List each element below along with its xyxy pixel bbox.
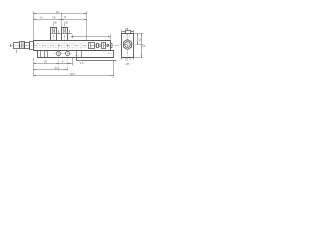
- top dim extension lines: [33, 11, 35, 40]
- svg-text:M5: M5: [53, 20, 57, 24]
- bottom dim row1: [34, 63, 59, 65]
- dim right y19.5: [62, 19, 87, 21]
- rail dim arrow: [114, 60, 117, 62]
- svg-text:4.5: 4.5: [80, 61, 84, 65]
- bottom dim row3: [34, 75, 114, 77]
- dim shaft-to-end y36.5: [71, 36, 110, 38]
- side view right extensions: [134, 34, 144, 58]
- side dim big: [141, 34, 143, 58]
- svg-text:25: 25: [44, 60, 48, 64]
- svg-text:14: 14: [40, 16, 43, 20]
- dim left y19.5: [34, 19, 62, 21]
- rail bottom right: [77, 58, 114, 61]
- lower band slot lines right: [77, 51, 82, 58]
- port circle 1 centerline: [58, 44, 60, 71]
- svg-text:62: 62: [56, 10, 60, 14]
- wire main horizontal centerline: [9, 45, 120, 47]
- left fitting: [14, 43, 20, 49]
- port circle 2: [66, 52, 70, 56]
- lower band slot lines left: [41, 51, 48, 58]
- boss 2: [62, 28, 68, 41]
- dim overall length y13.5: [34, 13, 87, 15]
- hexagon: [123, 40, 131, 50]
- hidden bore lines: [34, 43, 88, 45]
- side view h-centerline: [120, 44, 137, 46]
- svg-text:24: 24: [142, 44, 145, 48]
- side view bottom ticks: [122, 58, 134, 61]
- side view hidden port: [127, 34, 130, 39]
- side view boss width dim: [121, 31, 134, 33]
- boss 1: [51, 28, 57, 41]
- svg-text:M5: M5: [126, 62, 130, 66]
- body upper outline: [34, 41, 111, 51]
- svg-text:8: 8: [58, 30, 60, 34]
- bottom extension lines: [33, 58, 35, 77]
- svg-text:34: 34: [55, 66, 59, 70]
- svg-text:8: 8: [69, 30, 71, 34]
- svg-text:M5: M5: [64, 20, 68, 24]
- bottom dim row2: [34, 69, 68, 71]
- svg-text:11: 11: [64, 15, 67, 19]
- boss 1 centerline: [53, 24, 55, 42]
- hex circle: [125, 42, 131, 48]
- side dim small: [137, 34, 139, 45]
- boss width ticks: [57, 33, 61, 35]
- end cap right: [111, 44, 113, 48]
- side view main rect: [122, 34, 134, 58]
- port circle 2 centerline: [67, 44, 69, 71]
- svg-text:9: 9: [62, 59, 64, 63]
- boss 2 centerline: [64, 24, 66, 42]
- right edge hole centerline tick: [108, 53, 114, 55]
- port circle 1: [57, 52, 61, 56]
- side view v-centerline: [127, 28, 129, 62]
- internal piston parts right: [89, 43, 95, 49]
- body lower band: [34, 51, 114, 58]
- side view top boss: [126, 31, 131, 34]
- svg-text:28: 28: [53, 16, 57, 20]
- svg-text:79.5: 79.5: [70, 72, 76, 76]
